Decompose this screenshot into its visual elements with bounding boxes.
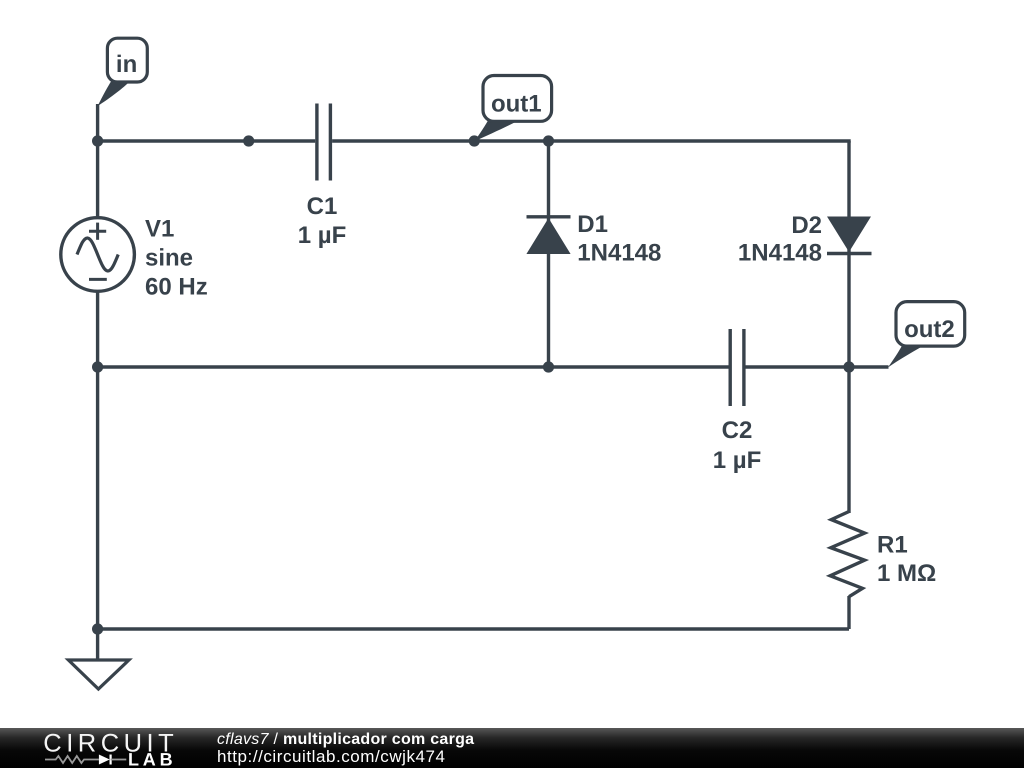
logo resistor squiggle bbox=[45, 756, 99, 763]
svg-text:C2: C2 bbox=[722, 417, 753, 444]
svg-text:D1: D1 bbox=[577, 211, 608, 238]
capacitor C2 bbox=[730, 329, 744, 406]
diode D2 bbox=[827, 217, 872, 254]
svg-text:V1: V1 bbox=[145, 216, 174, 243]
wire left vertical above V1 bbox=[96, 141, 99, 218]
svg-text:out1: out1 bbox=[491, 90, 542, 117]
svg-text:R1: R1 bbox=[877, 532, 908, 559]
svg-text:60 Hz: 60 Hz bbox=[145, 273, 208, 300]
node ground junction dot bbox=[92, 623, 103, 634]
svg-text:sine: sine bbox=[145, 245, 193, 272]
wire middle rail right of C2 bbox=[744, 365, 888, 368]
wire top rail left segment bbox=[96, 104, 99, 141]
wire ground stub bbox=[96, 630, 99, 660]
node junction dots bbox=[92, 135, 855, 634]
V1 sine symbol bbox=[77, 238, 118, 271]
diode D1 bbox=[527, 217, 571, 254]
svg-text:1 MΩ: 1 MΩ bbox=[877, 560, 936, 587]
capacitor C1 bbox=[317, 104, 331, 181]
node in junction bbox=[92, 135, 103, 146]
wire middle rail left of C2 bbox=[98, 365, 730, 368]
svg-text:1 µF: 1 µF bbox=[713, 447, 762, 474]
footer title bbox=[217, 731, 474, 748]
wire D1 branch vertical bbox=[547, 141, 550, 367]
wire top rail bbox=[98, 139, 316, 142]
svg-text:in: in bbox=[116, 51, 137, 78]
svg-text:LAB: LAB bbox=[128, 750, 176, 768]
ground bbox=[68, 660, 128, 689]
node out1 callout bbox=[474, 76, 551, 142]
V1 plus sign bbox=[89, 223, 106, 240]
svg-text:1 µF: 1 µF bbox=[298, 222, 347, 249]
node out2 dot bbox=[843, 361, 854, 372]
svg-text:1N4148: 1N4148 bbox=[738, 240, 822, 267]
node out2 callout bbox=[888, 302, 965, 368]
svg-text:C1: C1 bbox=[307, 193, 338, 220]
wire R1 bottom lead bbox=[847, 596, 850, 629]
logo diode bbox=[99, 755, 110, 765]
footer url bbox=[217, 748, 446, 765]
node middle-left dot bbox=[92, 361, 103, 372]
footer bar bbox=[0, 728, 1024, 768]
CircuitLab logo bbox=[0, 728, 200, 768]
V1 minus sign bbox=[89, 278, 107, 281]
node top rail dot bbox=[243, 135, 254, 146]
wire top rail right of C1 bbox=[332, 139, 851, 142]
wire left vertical below V1 bbox=[96, 291, 99, 630]
wire right vertical (D2 / R1 branch) bbox=[847, 141, 850, 513]
node out1 dot bbox=[469, 135, 480, 146]
wire bottom rail bbox=[98, 627, 849, 630]
node in callout bbox=[98, 38, 148, 106]
node D1 bottom dot bbox=[543, 361, 554, 372]
voltage source V1 bbox=[61, 218, 135, 292]
svg-text:D2: D2 bbox=[791, 212, 822, 239]
node D1 top dot bbox=[543, 135, 554, 146]
svg-text:1N4148: 1N4148 bbox=[577, 240, 661, 267]
resistor R1 bbox=[830, 512, 864, 597]
svg-text:out2: out2 bbox=[904, 316, 955, 343]
